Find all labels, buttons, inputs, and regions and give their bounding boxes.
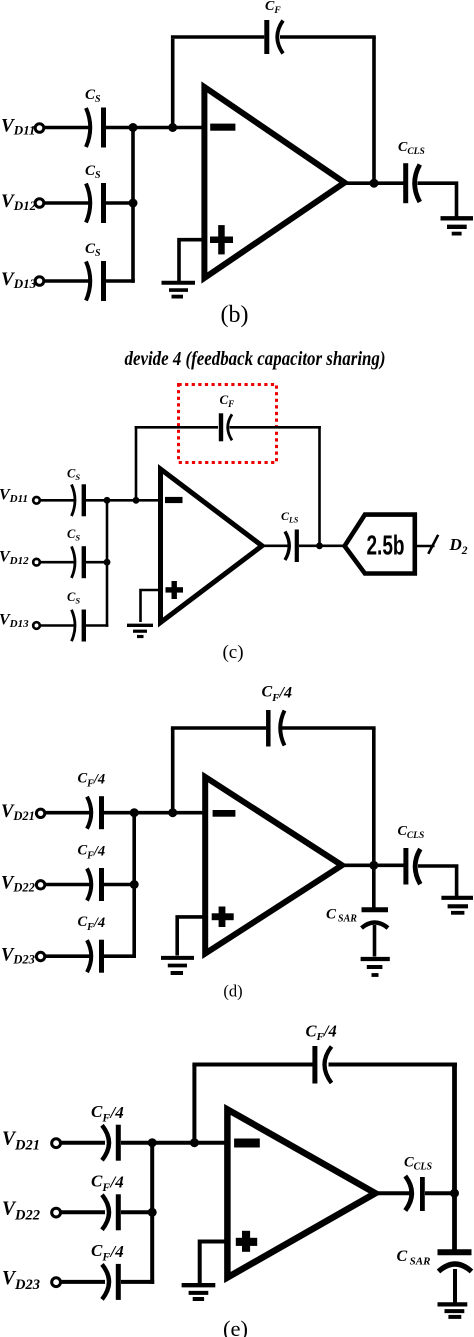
capacitor C_S (row 2) (86, 183, 104, 223)
capacitor C_LS (c) (285, 530, 297, 563)
terminal V_D21 (d) (36, 809, 44, 817)
wire V_D12 to C_S (c) (40, 561, 76, 564)
terminal V_D11 (35, 124, 44, 133)
junction output node (c) (316, 542, 323, 549)
svg-text:devide 4 (feedback capacitor s: devide 4 (feedback capacitor sharing) (125, 348, 386, 370)
wire feedback right down (d) (372, 728, 376, 866)
wire C_S row3 to bus (106, 279, 135, 283)
wire C_S row2 to bus (106, 201, 133, 205)
junction feedback tap (168, 123, 177, 132)
plus sign (d) (212, 907, 234, 928)
capacitor C_F/4 (d row 2) (87, 868, 102, 901)
plus sign (e) (236, 1231, 257, 1252)
capacitor C_F/4 (e row 3) (102, 1264, 118, 1300)
junction bus/row2 (129, 199, 138, 208)
wire feedback right down (e) (452, 1065, 457, 1251)
flash ADC block 2.5b (345, 515, 415, 574)
wire plus to ground (e) (200, 1242, 228, 1284)
wire feedback left down (c) (135, 426, 138, 500)
wire C_LS to flash ADC (c) (299, 544, 346, 547)
capacitor C_F/4 top (d) (268, 710, 284, 747)
wire feedback left down (e) (192, 1065, 196, 1145)
wire row1 to op-amp (d) (104, 811, 205, 815)
ground (b plus input) (162, 283, 196, 297)
wire ADC output (415, 545, 435, 548)
wire feedback top right segment (280, 35, 376, 39)
terminal V_D12 (c) (33, 559, 40, 566)
junction bus row1 (d) (130, 808, 139, 817)
wire V_D11 to C_S (45, 126, 89, 130)
wire feedback left down (d) (171, 728, 175, 814)
capacitor C_F/4 top (e) (315, 1046, 332, 1084)
wire input bus vertical (d) (132, 813, 136, 958)
wire row3 to bus (e) (121, 1280, 154, 1284)
junction output node (d) (369, 861, 378, 870)
wire feedback top right (d) (282, 726, 376, 730)
junction feedback tap (c) (133, 497, 140, 504)
junction bus row1 (e) (148, 1138, 157, 1147)
capacitor C_F (267, 20, 283, 54)
wire output node down to C_SAR (372, 866, 376, 908)
capacitor C_S (c row 3) (72, 610, 84, 642)
wire C_CLS to ground (b) (418, 183, 457, 216)
wire feedback top left segment (171, 35, 264, 39)
svg-text:(c): (c) (222, 642, 243, 663)
svg-text:(d): (d) (223, 982, 242, 1001)
bus slash (428, 535, 438, 554)
wire V_D22 to cap (d) (44, 883, 90, 887)
capacitor C_F/4 (e row 1) (102, 1125, 118, 1161)
terminal V_D23 (e) (52, 1278, 61, 1287)
minus sign (b) (210, 124, 235, 131)
terminal V_D22 (d) (36, 881, 44, 889)
wire V_D11 to C_S (c) (40, 499, 76, 502)
wire input bus vertical (131, 128, 135, 283)
junction bus row2 (e) (148, 1208, 157, 1217)
wire C_S row1 to op-amp minus input (106, 126, 204, 130)
capacitor C_F/4 (d row 3) (87, 940, 102, 973)
wire plus to ground (d) (177, 917, 206, 956)
capacitor C_S (row 3) (86, 261, 104, 301)
svg-text:2.5b: 2.5b (367, 530, 405, 561)
op-amp U (b) (204, 87, 344, 278)
wire row3 to bus (d) (104, 954, 136, 958)
wire C_SAR to ground (e) (453, 1269, 457, 1303)
junction bus/row1 (129, 123, 138, 132)
capacitor C_F (c) (221, 413, 232, 441)
wire feedback top left (d) (171, 726, 266, 730)
ground (d output right) (441, 898, 473, 913)
wire V_D23 to cap (d) (44, 954, 90, 958)
wire V_D21 to cap (e) (60, 1141, 105, 1145)
junction output node (370, 179, 379, 188)
plus sign (c) (166, 581, 184, 599)
plus sign (b) (210, 225, 233, 254)
ground (e C_SAR) (438, 1304, 468, 1317)
minus sign (d) (213, 810, 236, 817)
wire input bus vertical (e) (150, 1143, 154, 1284)
wire V_D13 to C_S (c) (40, 624, 76, 627)
op-amp U (c) (161, 469, 263, 623)
capacitor C_S (row 1) (86, 108, 104, 148)
wire row1 to op-amp (c) (86, 499, 162, 502)
terminal V_D22 (e) (52, 1208, 61, 1217)
wire row3 to bus (c) (86, 624, 108, 627)
wire row1 to op-amp (e) (121, 1141, 228, 1145)
wire op-amp output (c) (259, 544, 288, 547)
junction output node (e) (450, 1189, 459, 1198)
ground (b output) (441, 218, 474, 233)
ground (c) (127, 625, 153, 636)
wire feedback top left (e) (192, 1063, 313, 1067)
junction bus row1 (c) (104, 497, 111, 504)
capacitor C_SAR (d) (362, 910, 389, 928)
wire feedback top right (e) (329, 1063, 458, 1067)
capacitor C_CLS (b) (406, 163, 420, 203)
minus sign (c) (165, 497, 183, 503)
junction bus row2 (d) (130, 880, 139, 889)
svg-text:(e): (e) (223, 1316, 248, 1337)
svg-text:(b): (b) (221, 302, 249, 328)
terminal V_D23 (d) (36, 952, 44, 960)
junction feedback tap (d) (168, 808, 177, 817)
wire op-amp output (e) (371, 1191, 410, 1195)
wire input bus vertical (c) (106, 500, 109, 627)
wire row2 to bus (d) (104, 883, 134, 887)
wire feedback down to output (372, 37, 376, 184)
wire V_D12 to C_S (45, 201, 89, 205)
op-amp U (d) (205, 777, 342, 954)
op-amp U (e) (227, 1109, 375, 1277)
wire V_D13 to C_S (45, 279, 89, 283)
capacitor C_CLS (d) (406, 848, 420, 885)
wire C_CLS to ground (d) (418, 866, 457, 896)
wire feedback tap up (171, 39, 175, 129)
capacitor C_F/4 (e row 2) (102, 1194, 118, 1230)
terminal V_D21 (e) (52, 1139, 61, 1148)
wire op-amp output (341, 181, 404, 185)
junction feedback tap (e) (190, 1138, 199, 1147)
wire feedback top right (c) (230, 426, 321, 429)
ground (e plus input) (182, 1285, 216, 1299)
highlight box (red dotted) around C_F (179, 385, 277, 463)
terminal V_D12 (35, 199, 44, 208)
ground (d C_SAR) (361, 959, 390, 975)
wire feedback top left (c) (135, 426, 218, 429)
wire row2 to bus (c) (86, 561, 107, 564)
terminal V_D11 (c) (33, 497, 40, 504)
ground (d plus input) (161, 958, 194, 973)
capacitor C_CLS (e) (405, 1176, 422, 1211)
minus sign (e) (234, 1139, 260, 1148)
wire op-amp output (d) (338, 863, 404, 867)
terminal V_D13 (c) (33, 622, 40, 629)
capacitor C_F/4 (d row 1) (87, 796, 102, 829)
wire feedback right down (c) (318, 426, 321, 546)
capacitor C_S (c row 2) (72, 546, 84, 578)
wire row2 to bus (e) (121, 1210, 152, 1214)
wire V_D22 to cap (e) (60, 1210, 105, 1214)
capacitor C_S (c row 1) (72, 484, 84, 516)
terminal V_D13 (35, 277, 44, 286)
wire C_CLS to node (e) (425, 1191, 457, 1195)
wire plus to ground (c) (141, 590, 163, 622)
wire V_D21 to cap (d) (44, 811, 90, 815)
capacitor C_SAR (e) (438, 1252, 472, 1271)
wire plus input to ground (179, 240, 206, 281)
wire C_SAR to ground (d) (373, 925, 377, 957)
wire V_D23 to cap (e) (60, 1280, 105, 1284)
junction bus row2 (c) (104, 559, 111, 566)
